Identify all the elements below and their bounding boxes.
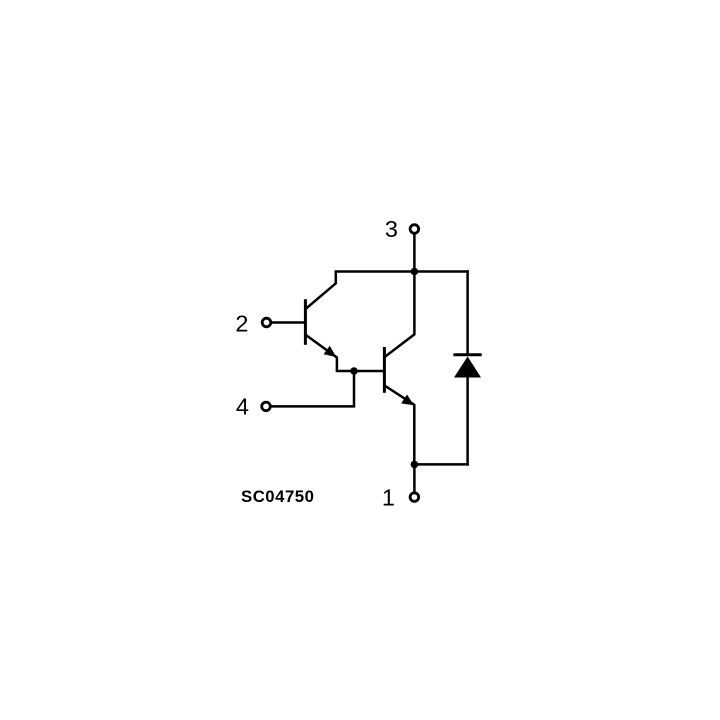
terminal pin 4 (262, 402, 271, 411)
wire top horizontal (collector net) (336, 270, 468, 273)
wire pin3 to node A (413, 235, 416, 271)
transistor Q2 emitter arrow (401, 395, 414, 406)
svg-text:1: 1 (382, 485, 395, 511)
wire pin2 to Q1 base (272, 321, 304, 324)
transistor Q2 emitter (386, 386, 415, 464)
svg-text:3: 3 (385, 216, 398, 242)
transistor Q2 collector (386, 273, 415, 357)
wire node C to pin 1 (413, 464, 416, 490)
node A junction (411, 268, 419, 276)
transistor Q1 emitter wire to Q2 base (306, 335, 383, 371)
transistor Q1 collector (306, 273, 336, 309)
node B junction (350, 367, 358, 375)
transistor Q1 emitter arrow (324, 346, 337, 357)
svg-text:2: 2 (235, 310, 248, 336)
diode D1 upper lead (466, 272, 469, 355)
diode D1 anode triangle (454, 357, 481, 378)
transistor Q1 base bar (304, 301, 307, 344)
terminal pin 1 (410, 493, 419, 502)
terminal pin 2 (262, 318, 271, 327)
transistor Q2 base bar (383, 349, 386, 392)
node C junction (411, 461, 419, 469)
diode D1 cathode bar (455, 353, 480, 356)
terminal pin 3 (410, 225, 419, 234)
svg-text:SC04750: SC04750 (241, 487, 314, 506)
wire node C to diode (414, 463, 467, 466)
wire node B to pin 4 (272, 371, 354, 406)
diode D1 lower lead (466, 377, 469, 464)
svg-text:4: 4 (236, 394, 249, 420)
